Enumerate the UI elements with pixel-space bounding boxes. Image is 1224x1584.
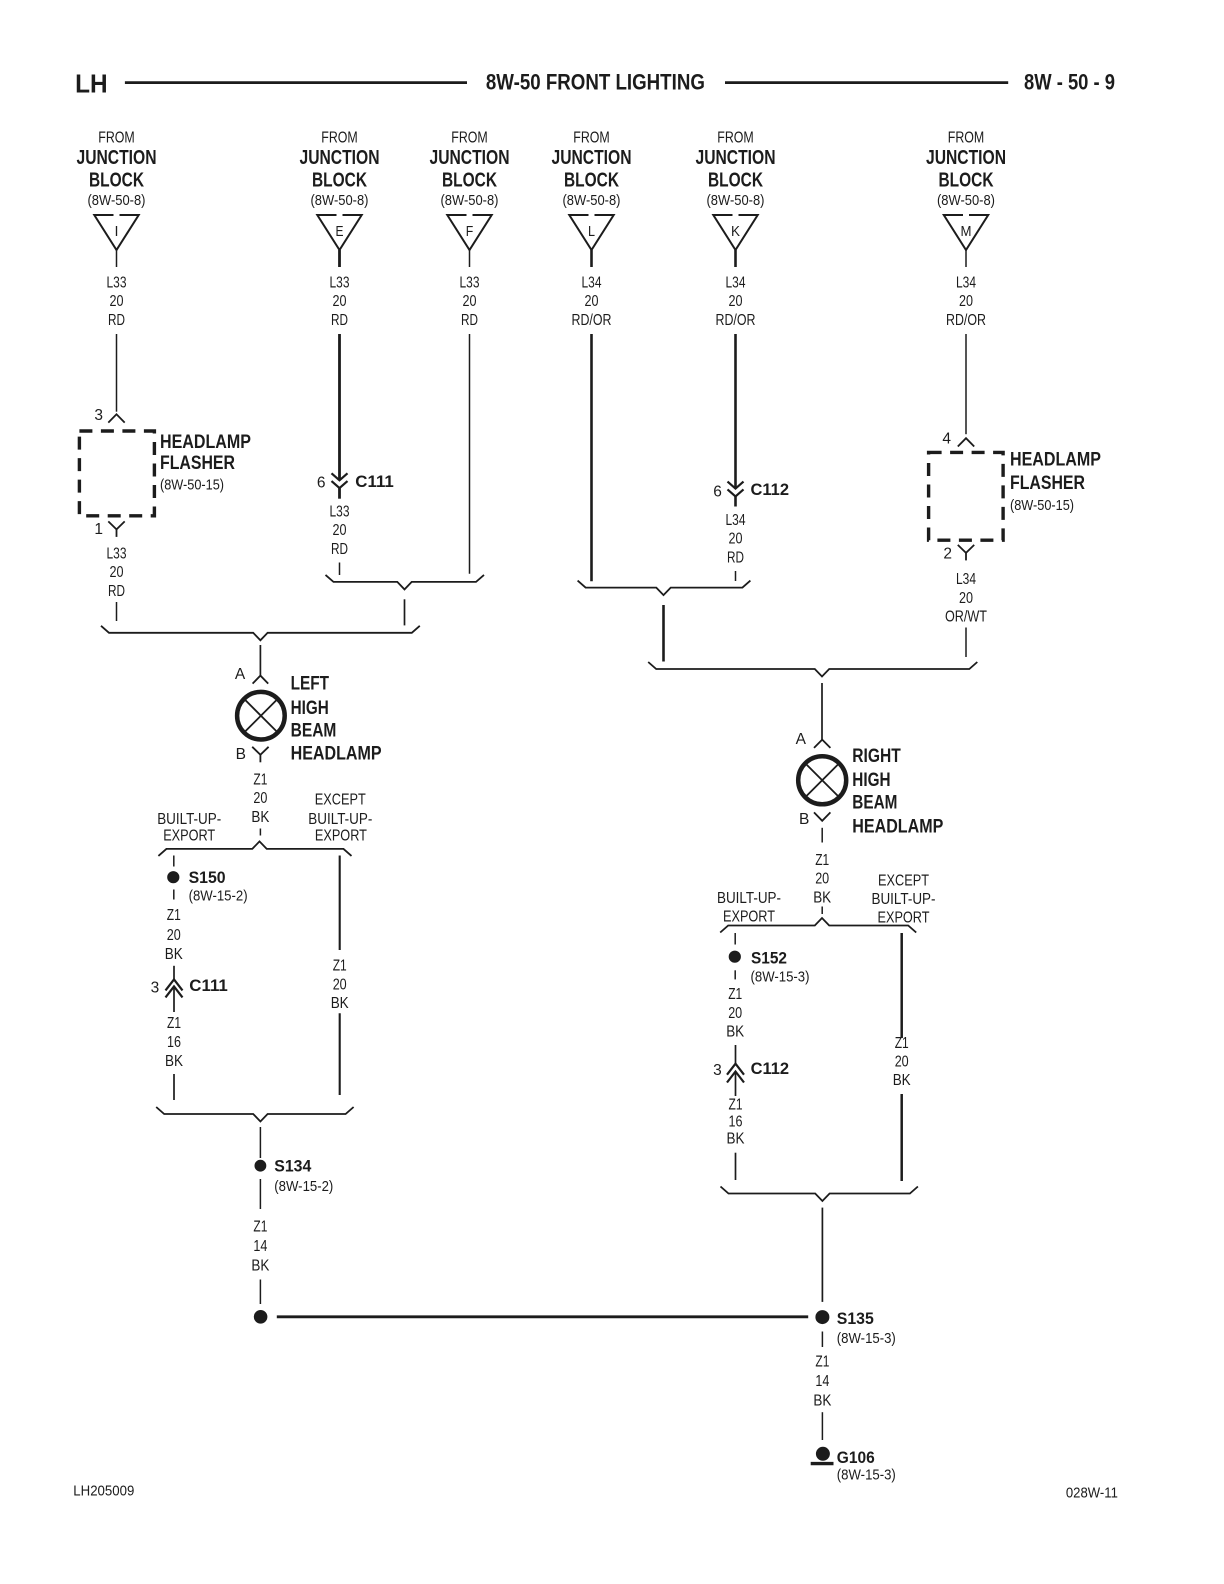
wire to C112 pin 3	[735, 1045, 737, 1064]
svg-text:HIGH: HIGH	[852, 770, 890, 791]
svg-text:FROM: FROM	[948, 130, 985, 147]
svg-text:(8W-15-3): (8W-15-3)	[837, 1467, 896, 1484]
svg-text:BLOCK: BLOCK	[89, 169, 144, 191]
connector C111 (in-line, pin 6)	[332, 473, 348, 480]
lamp: RIGHT HIGH BEAM HEADLAMP symbol	[798, 756, 846, 804]
wire junction brace right ground paths	[721, 1187, 918, 1202]
svg-text:EXPORT: EXPORT	[723, 909, 775, 926]
wire E/F merged	[404, 599, 406, 625]
wire junction brace left ground paths	[156, 1107, 353, 1122]
wire dash to S152	[734, 933, 736, 945]
svg-text:L34: L34	[956, 274, 976, 291]
svg-text:BUILT-UP-: BUILT-UP-	[717, 890, 781, 907]
svg-text:BK: BK	[251, 809, 270, 826]
wire dash below S150	[173, 890, 175, 900]
pin B connector Y (left lamp)	[252, 747, 268, 755]
svg-text:JUNCTION: JUNCTION	[696, 147, 776, 169]
svg-text:(8W-50-8): (8W-50-8)	[937, 192, 995, 209]
wire column M to merge brace	[965, 628, 967, 658]
svg-text:JUNCTION: JUNCTION	[300, 147, 380, 169]
svg-text:20: 20	[463, 293, 477, 310]
svg-text:(8W-15-2): (8W-15-2)	[274, 1178, 333, 1195]
svg-text:20: 20	[959, 590, 973, 607]
off-page connector triangle L	[569, 215, 613, 250]
svg-text:Z1: Z1	[333, 958, 347, 975]
wire to ground G106	[821, 1412, 823, 1440]
svg-text:JUNCTION: JUNCTION	[430, 147, 510, 169]
svg-text:RD/OR: RD/OR	[716, 312, 756, 329]
wire right EXCEPT branch lower	[900, 1094, 903, 1181]
svg-text:BK: BK	[727, 1131, 746, 1148]
svg-text:G106: G106	[837, 1448, 875, 1467]
svg-text:16: 16	[729, 1114, 743, 1131]
svg-text:BLOCK: BLOCK	[708, 169, 763, 191]
svg-text:20: 20	[815, 871, 829, 888]
svg-text:HEADLAMP: HEADLAMP	[852, 817, 943, 838]
svg-text:Z1: Z1	[728, 986, 742, 1003]
svg-text:BLOCK: BLOCK	[312, 169, 367, 191]
svg-text:8W-50 FRONT LIGHTING: 8W-50 FRONT LIGHTING	[486, 69, 705, 94]
svg-text:LH205009: LH205009	[73, 1483, 134, 1500]
wire to C111 pin 3	[173, 966, 175, 980]
svg-text:BK: BK	[251, 1258, 270, 1275]
wire to left high beam headlamp pin A	[259, 645, 261, 676]
svg-text:3: 3	[713, 1062, 722, 1079]
wire to S135	[821, 1208, 823, 1302]
svg-text:L33: L33	[330, 274, 350, 291]
svg-text:EXCEPT: EXCEPT	[315, 791, 366, 808]
svg-text:Z1: Z1	[815, 852, 829, 869]
svg-text:(8W-50-8): (8W-50-8)	[563, 192, 621, 209]
svg-text:FROM: FROM	[717, 130, 754, 147]
wire dash to S150	[173, 856, 175, 867]
pin A connector chevron (left lamp)	[253, 676, 269, 684]
wire to junction node	[259, 1280, 261, 1305]
wire L/K merged	[662, 605, 665, 662]
svg-text:S152: S152	[751, 949, 787, 968]
wire dash K to merge brace	[735, 571, 737, 581]
svg-text:BLOCK: BLOCK	[939, 169, 994, 191]
svg-text:K: K	[731, 223, 740, 240]
svg-text:L33: L33	[107, 546, 127, 563]
svg-text:LEFT: LEFT	[291, 673, 330, 694]
splice S134	[255, 1160, 266, 1171]
svg-text:RD: RD	[727, 549, 744, 566]
svg-text:L34: L34	[726, 512, 746, 529]
svg-text:L33: L33	[107, 274, 127, 291]
wire stub below triangle E	[338, 250, 341, 267]
svg-text:RD: RD	[108, 312, 125, 329]
svg-text:20: 20	[959, 293, 973, 310]
svg-text:C112: C112	[751, 480, 790, 499]
splice S135	[816, 1311, 829, 1324]
svg-text:L34: L34	[726, 274, 746, 291]
svg-text:B: B	[799, 811, 809, 828]
wire junction brace I+EF	[101, 626, 420, 641]
wire right EXCEPT branch upper	[900, 933, 903, 1038]
svg-text:B: B	[236, 746, 246, 763]
svg-text:BEAM: BEAM	[852, 793, 897, 814]
wire stub below triangle M	[965, 250, 967, 267]
svg-text:EXPORT: EXPORT	[878, 909, 930, 926]
svg-text:2: 2	[943, 546, 952, 563]
svg-text:Z1: Z1	[895, 1035, 909, 1052]
svg-text:I: I	[115, 223, 119, 240]
svg-text:JUNCTION: JUNCTION	[77, 147, 157, 169]
wire stub below triangle L	[590, 250, 593, 267]
wire column M	[965, 334, 967, 434]
svg-text:F: F	[466, 223, 474, 240]
pin 4 connector chevron	[958, 438, 974, 446]
svg-text:E: E	[336, 223, 344, 240]
wire column I	[116, 334, 118, 412]
svg-text:FLASHER: FLASHER	[1010, 473, 1085, 494]
wire S150 branch to merge brace	[173, 1074, 175, 1100]
svg-text:RD: RD	[331, 312, 348, 329]
svg-text:BK: BK	[165, 946, 184, 963]
header rule right	[725, 81, 1008, 84]
svg-text:L34: L34	[582, 274, 602, 291]
wire dash below S152	[734, 970, 736, 979]
svg-text:RD: RD	[461, 312, 478, 329]
svg-text:(8W-50-8): (8W-50-8)	[311, 192, 369, 209]
svg-text:20: 20	[333, 976, 347, 993]
svg-text:BK: BK	[813, 1393, 832, 1410]
svg-text:BK: BK	[331, 995, 350, 1012]
svg-text:L34: L34	[956, 571, 976, 588]
svg-text:A: A	[796, 731, 807, 748]
svg-text:BUILT-UP-: BUILT-UP-	[872, 891, 936, 908]
pin B connector V (right lamp)	[814, 812, 830, 820]
svg-text:RD/OR: RD/OR	[946, 312, 986, 329]
svg-text:Z1: Z1	[815, 1353, 829, 1370]
pin 3 connector chevron	[108, 414, 124, 422]
wire to S134	[259, 1127, 261, 1158]
wire dash E to merge brace	[339, 563, 341, 576]
junction node left	[254, 1311, 267, 1324]
svg-text:028W-11: 028W-11	[1066, 1485, 1118, 1502]
svg-text:C111: C111	[355, 472, 394, 491]
wire stub below right lamp	[821, 828, 823, 843]
off-page connector triangle I	[94, 215, 138, 250]
svg-text:M: M	[961, 223, 972, 240]
lamp: LEFT HIGH BEAM HEADLAMP symbol	[237, 692, 285, 740]
svg-text:(8W-15-3): (8W-15-3)	[837, 1330, 896, 1347]
svg-text:(8W-50-8): (8W-50-8)	[707, 192, 765, 209]
svg-text:(8W-50-8): (8W-50-8)	[441, 192, 499, 209]
wire column F	[469, 334, 471, 574]
svg-text:20: 20	[167, 927, 181, 944]
svg-text:20: 20	[585, 293, 599, 310]
wire column L	[590, 334, 593, 581]
wire stub below triangle F	[469, 250, 471, 267]
svg-text:(8W-50-15): (8W-50-15)	[1010, 497, 1074, 514]
svg-text:L33: L33	[460, 274, 480, 291]
svg-text:20: 20	[333, 522, 347, 539]
wire left EXCEPT branch upper	[339, 856, 341, 951]
svg-text:FROM: FROM	[451, 130, 488, 147]
svg-text:(8W-15-3): (8W-15-3)	[751, 969, 810, 986]
wire column K	[734, 334, 737, 489]
off-page connector triangle K	[713, 215, 757, 250]
svg-text:6: 6	[713, 483, 722, 500]
headlamp flasher left (dashed box)	[79, 431, 154, 516]
svg-text:16: 16	[167, 1034, 181, 1051]
splice S150	[168, 872, 179, 883]
svg-text:20: 20	[110, 564, 124, 581]
svg-text:14: 14	[253, 1238, 267, 1255]
svg-text:BK: BK	[893, 1072, 912, 1089]
ground G106	[816, 1447, 829, 1460]
svg-text:(8W-50-15): (8W-50-15)	[160, 477, 224, 494]
svg-text:FROM: FROM	[98, 130, 135, 147]
svg-text:RD: RD	[331, 541, 348, 558]
svg-text:20: 20	[729, 531, 743, 548]
svg-text:14: 14	[815, 1373, 829, 1390]
svg-text:3: 3	[151, 979, 160, 996]
svg-text:6: 6	[317, 475, 326, 492]
svg-text:3: 3	[94, 407, 103, 424]
wire S152 branch to merge brace	[735, 1153, 737, 1180]
svg-text:L: L	[588, 223, 595, 240]
svg-text:20: 20	[333, 293, 347, 310]
wire junction to S135	[277, 1315, 808, 1318]
off-page connector triangle M	[944, 215, 988, 250]
svg-text:BK: BK	[726, 1024, 745, 1041]
svg-text:(8W-50-8): (8W-50-8)	[88, 192, 146, 209]
svg-text:RIGHT: RIGHT	[852, 746, 901, 767]
wire dash below S135	[821, 1332, 823, 1348]
wire below C111 pin 3	[173, 986, 175, 1012]
wire junction brace E+F	[326, 575, 485, 590]
wire junction brace M+LK	[648, 662, 977, 677]
wire stub below C111	[338, 488, 341, 499]
wire column I to splice brace	[116, 602, 118, 621]
wire split brace right lamp ground paths	[720, 918, 916, 933]
svg-text:Z1: Z1	[167, 1015, 181, 1032]
svg-text:BK: BK	[813, 889, 832, 906]
svg-text:HEADLAMP: HEADLAMP	[291, 744, 382, 765]
svg-text:20: 20	[895, 1054, 909, 1071]
svg-text:L33: L33	[330, 504, 350, 521]
svg-text:FLASHER: FLASHER	[160, 453, 235, 474]
svg-text:A: A	[235, 666, 246, 683]
svg-text:FROM: FROM	[573, 130, 610, 147]
connector C112 (in-line, pin 6)	[728, 482, 744, 489]
off-page connector triangle E	[317, 215, 361, 250]
svg-text:HEADLAMP: HEADLAMP	[1010, 450, 1101, 471]
svg-text:LH: LH	[75, 71, 108, 99]
svg-text:BUILT-UP-: BUILT-UP-	[157, 811, 221, 828]
wire dash below right lamp labels	[821, 907, 823, 915]
svg-text:EXPORT: EXPORT	[315, 827, 367, 844]
wire to right high beam headlamp pin A	[821, 683, 823, 740]
pin 2 connector Y	[958, 545, 974, 553]
svg-text:BLOCK: BLOCK	[442, 169, 497, 191]
wire dash below left lamp	[259, 829, 261, 836]
headlamp flasher right (dashed box)	[929, 452, 1004, 540]
svg-text:HEADLAMP: HEADLAMP	[160, 432, 251, 453]
pin 1 connector Y	[108, 521, 124, 529]
wire split brace left lamp ground paths	[158, 841, 351, 856]
svg-text:HIGH: HIGH	[291, 698, 329, 719]
svg-text:S135: S135	[837, 1309, 874, 1328]
wire left EXCEPT branch lower	[339, 1013, 341, 1095]
svg-text:C111: C111	[189, 976, 228, 995]
wire column E	[338, 334, 341, 480]
svg-text:OR/WT: OR/WT	[945, 609, 987, 626]
svg-text:20: 20	[729, 293, 743, 310]
svg-text:1: 1	[94, 521, 103, 538]
svg-text:Z1: Z1	[729, 1097, 743, 1114]
off-page connector triangle F	[447, 215, 491, 250]
svg-text:Z1: Z1	[167, 907, 181, 924]
pin A connector chevron (right lamp)	[814, 740, 830, 748]
svg-text:EXCEPT: EXCEPT	[878, 873, 929, 890]
svg-text:20: 20	[253, 790, 267, 807]
svg-text:8W - 50 - 9: 8W - 50 - 9	[1024, 69, 1115, 94]
svg-text:Z1: Z1	[253, 771, 267, 788]
wire junction brace L+K	[578, 581, 751, 596]
svg-text:JUNCTION: JUNCTION	[552, 147, 632, 169]
wire below C112 pin 3	[735, 1072, 737, 1097]
svg-text:FROM: FROM	[321, 130, 358, 147]
svg-text:BLOCK: BLOCK	[564, 169, 619, 191]
wire stub below triangle K	[734, 250, 737, 267]
svg-text:RD: RD	[108, 583, 125, 600]
svg-text:S134: S134	[274, 1157, 312, 1176]
svg-text:20: 20	[110, 293, 124, 310]
svg-text:20: 20	[728, 1005, 742, 1022]
connector C112 (in-line, pin 3)	[727, 1064, 744, 1075]
svg-text:BK: BK	[165, 1053, 184, 1070]
header rule left	[125, 81, 467, 84]
splice S152	[729, 951, 740, 962]
svg-text:Z1: Z1	[253, 1218, 267, 1235]
svg-text:4: 4	[942, 430, 951, 447]
svg-text:JUNCTION: JUNCTION	[926, 147, 1006, 169]
wire stub below C112	[734, 496, 737, 506]
wire below S134	[259, 1179, 261, 1209]
svg-text:BEAM: BEAM	[291, 720, 337, 741]
svg-text:EXPORT: EXPORT	[163, 827, 215, 844]
svg-text:BUILT-UP-: BUILT-UP-	[308, 811, 372, 828]
svg-text:RD/OR: RD/OR	[572, 312, 612, 329]
svg-text:(8W-15-2): (8W-15-2)	[189, 888, 248, 905]
svg-text:S150: S150	[189, 868, 226, 887]
svg-text:C112: C112	[751, 1059, 790, 1078]
connector C111 (in-line, pin 3)	[166, 979, 183, 990]
wire stub below triangle I	[116, 250, 118, 267]
